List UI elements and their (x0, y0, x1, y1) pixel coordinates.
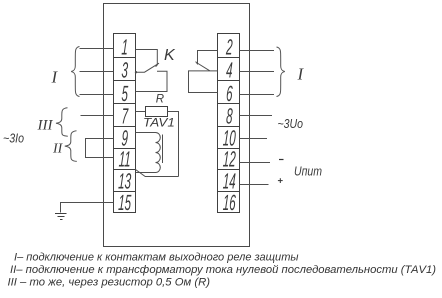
svg-text:I: I (51, 67, 59, 86)
svg-text:Uпит: Uпит (294, 163, 322, 178)
svg-text:2: 2 (225, 34, 233, 59)
resistor R body (146, 107, 168, 117)
contact K blade (136, 63, 160, 72)
wire bottom run to terminal 11 (136, 170, 179, 177)
contact K tick (156, 65, 158, 67)
brace I left (71, 47, 79, 97)
svg-text:II: II (52, 141, 64, 156)
terminal box X2 (right column outline) (218, 34, 240, 213)
brace III left (56, 108, 68, 137)
transformer TAV1 primary winding (156, 133, 161, 173)
wire stub terminal 3 (80, 71, 114, 73)
wire stub terminal 1 (80, 48, 114, 50)
svg-text:3: 3 (121, 58, 129, 83)
svg-text:R: R (156, 93, 164, 105)
svg-text:III: III (37, 117, 54, 133)
right contact blade (197, 63, 210, 71)
wire stub terminal 4 (240, 71, 275, 73)
wire resistor R right lead (168, 112, 179, 177)
minus sign terminal 12 (279, 159, 284, 161)
svg-text:TAV1: TAV1 (143, 116, 175, 130)
device outline rectangle (104, 4, 250, 247)
svg-text:II– подключение к трансформато: II– подключение к трансформатору тока ну… (10, 264, 436, 276)
wire terminal 9 to winding top (136, 132, 156, 134)
brace II left (65, 131, 77, 162)
transformer TAV1 core bar (162, 135, 164, 164)
svg-text:~3Uо: ~3Uо (278, 116, 304, 131)
junction dot terminal 3 (135, 71, 137, 73)
svg-text:15: 15 (118, 190, 132, 215)
terminal numbers right column (222, 34, 236, 215)
svg-text:III – то же, через резистор 0,: III – то же, через резистор 0,5 Ом (R) (8, 277, 211, 289)
right contact tick (196, 62, 198, 64)
svg-text:1: 1 (121, 34, 129, 59)
svg-text:5: 5 (121, 81, 129, 106)
wire stub terminal 10 (240, 138, 268, 140)
svg-text:6: 6 (226, 81, 234, 106)
svg-text:16: 16 (222, 190, 236, 215)
wire terminal 7 to resistor R (136, 111, 146, 113)
plus sign terminal 14 (278, 180, 283, 182)
wire loop node II terminals 9-11 (86, 139, 114, 158)
wire stub terminal 8 (240, 115, 273, 117)
svg-text:I– подключение к контактам вых: I– подключение к контактам выходного рел… (14, 252, 299, 264)
ground (55, 214, 67, 220)
terminal numbers left column (118, 34, 132, 215)
wire ground stub terminal 15 (61, 203, 114, 213)
svg-text:~3Iо: ~3Iо (3, 131, 24, 145)
terminal box X1 (left column outline) (114, 34, 136, 213)
wire contact fixed side from terminal 2 (198, 51, 218, 65)
wire jumper terminals 4-6 (189, 71, 218, 93)
svg-text:4: 4 (226, 58, 234, 83)
wire winding bottom to terminal 11 (136, 172, 156, 174)
wire stub terminal 7 (81, 115, 114, 117)
brace I right (277, 47, 285, 97)
wire contact K fixed side from terminal 1 (136, 50, 158, 66)
wire stub terminal 6 (240, 94, 275, 96)
wire stub terminal 14 (240, 184, 269, 186)
wire jumper terminals 3-5 (136, 71, 168, 91)
wire stub terminal 5 (80, 94, 114, 96)
wire stub terminal 12 (240, 162, 271, 164)
svg-text:I: I (297, 64, 305, 83)
svg-text:K: K (164, 47, 176, 64)
wire stub terminal 2 (240, 50, 275, 52)
